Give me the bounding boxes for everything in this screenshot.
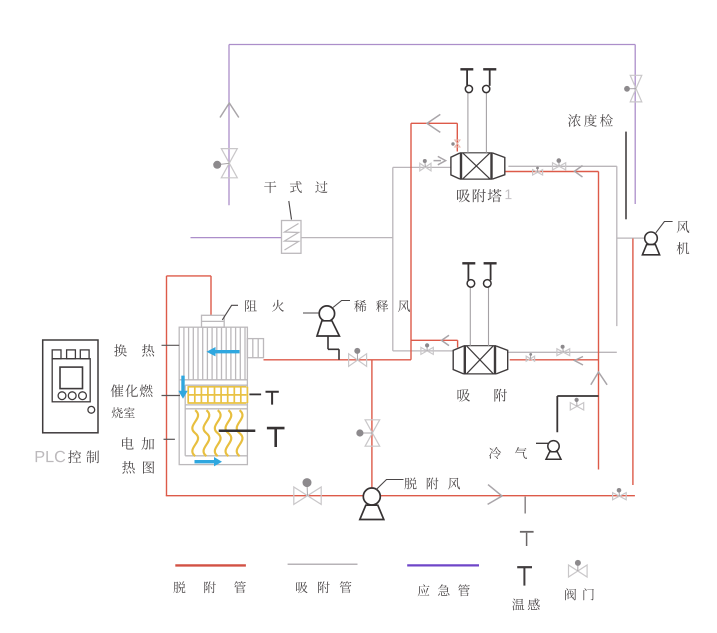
callout: dry filter (289, 201, 292, 220)
adsorption tower 2 X cross (466, 346, 493, 374)
arrow: up on red riser (591, 372, 607, 385)
heater coils (yellow waves) (192, 410, 242, 456)
legend: desorption pipe sample (175, 564, 246, 566)
temperature sensor T1b (483, 69, 497, 92)
sensor drops tower1 (468, 93, 487, 153)
adsorption tower 2 left cap (453, 346, 463, 374)
valve V12 emergency left (213, 149, 237, 178)
temperature sensor T2b (484, 263, 497, 287)
wire: tower2 outlet (508, 351, 617, 353)
valve V14 legend (569, 560, 588, 577)
wire: concentration detector line (625, 132, 627, 220)
valve V13 emergency right (624, 75, 642, 102)
wire: fan branch (617, 237, 645, 239)
fan: main fan (642, 232, 659, 255)
text: famen (565, 588, 594, 600)
text: xifuguan (296, 581, 351, 593)
arrow: left on tower2 feed (442, 335, 450, 345)
catalyst chamber borders (185, 385, 247, 405)
valve V5 tower2 red outlet (526, 353, 534, 361)
valve V3 tower1 red outlet (533, 167, 543, 175)
unit outlet protrusion (247, 339, 263, 358)
flame arrester chimney (202, 315, 225, 327)
text: retu (122, 461, 154, 474)
text: tuofufeng (405, 478, 461, 490)
legend: temperature sensor lower (517, 567, 532, 585)
wire: tower1 inlet (393, 166, 451, 168)
arrow: left on tower1 red outlet (575, 166, 583, 178)
tick: heat exchanger label (162, 344, 180, 346)
text: ganshiguo (264, 181, 327, 193)
valve V6 tower2 gray outlet (557, 345, 570, 356)
wire: tower1 red outlet (505, 171, 599, 173)
thermocouple upper probe (249, 393, 261, 395)
text: tuofuguan (174, 581, 246, 593)
catalytic unit shell (179, 327, 247, 464)
wire: tower1 top feed (411, 123, 457, 151)
catalyst grid (yellow) (188, 387, 248, 403)
valve V7 dilution duct (349, 348, 367, 367)
sensor drops tower2 (470, 288, 488, 346)
fan: dilution blower (317, 306, 339, 336)
valve V15 tower1 top feed (451, 140, 460, 147)
temperature sensor T2a (462, 263, 475, 287)
text: num1 (506, 190, 512, 200)
callout: flame arrester (222, 305, 238, 320)
text: huanre (114, 344, 154, 357)
wire: intake manifold vertical (392, 167, 394, 351)
text: xifuta (457, 189, 502, 202)
arrow: right at tower1 inlet (434, 156, 446, 164)
legend: emergency pipe sample (407, 564, 479, 566)
wire: desorption hot duct horizontal (264, 359, 412, 361)
text: cuihuaran (111, 384, 153, 397)
arrow: right on bottom pipe (488, 485, 502, 505)
wire: emergency pipe top horizontal (229, 44, 635, 46)
valve V1 tower1 inlet (420, 159, 431, 171)
text: yingjiguan (418, 584, 470, 596)
arrow: left on tower1 top feed (427, 114, 440, 132)
temperature sensor T1a (460, 69, 473, 92)
wire: desorption top elbow (167, 276, 212, 315)
wire: dilution blower zigzag (328, 336, 339, 360)
adsorption tower 1 body (460, 153, 493, 179)
thermocouple lower probe (219, 430, 256, 433)
text: xishifeng (354, 300, 410, 312)
tick: heater label (164, 438, 175, 440)
wire: filter outlet to manifold (301, 237, 393, 239)
PLC cabinet body (43, 340, 98, 433)
text: wengan (512, 599, 540, 611)
arrow: blue right at heater outlet (195, 457, 223, 466)
wire: tower feed vertical (410, 123, 412, 359)
adsorption tower 2 body (464, 346, 497, 374)
text: zuhuo (245, 300, 284, 312)
valve V2 tower1 gray outlet (553, 158, 566, 170)
adsorption tower 2 right cap (496, 346, 508, 374)
wire: cold air elbow (557, 396, 598, 432)
wire: desorption bottom horizontal (166, 495, 635, 497)
adsorption tower 1 X cross (463, 153, 491, 179)
adsorption tower 1 left cap (451, 153, 460, 179)
wire: tower1 outlet to fan (508, 165, 616, 167)
wire: probe stem (524, 497, 526, 514)
fan: cold air blower (546, 441, 561, 460)
arrow: blue down at catalyst inlet (178, 376, 187, 399)
legend: temperature sensor upper (520, 532, 534, 546)
text: plc (36, 451, 66, 463)
unit label ticks (162, 345, 181, 439)
wire: red riser mid (598, 172, 600, 470)
arrow: blue left in heat exchanger (207, 347, 240, 356)
tick: catalyst label (162, 395, 181, 397)
text: kongzhi (68, 450, 99, 463)
wire: desorption left vertical (166, 276, 168, 496)
valve V4 tower2 inlet (421, 343, 433, 354)
wire: emergency pipe right vertical (634, 45, 636, 205)
legend: adsorption pipe sample (288, 563, 358, 565)
wire: red drop from fan line (632, 239, 634, 486)
wire: tower2 inlet (393, 350, 453, 352)
wire: tower2 red outlet (510, 359, 599, 361)
arrow: up on emergency pipe (220, 103, 239, 118)
text: nongdujian (568, 114, 613, 127)
wire: emergency pipe left vertical (228, 45, 230, 206)
text: feng (677, 221, 690, 233)
wire: tower2 feed elbow (411, 340, 458, 347)
valve V9 bottom right (613, 488, 627, 500)
fan: desorption fan (360, 488, 384, 520)
adsorption tower 1 right cap (493, 153, 505, 179)
valve V11 desorption drop (356, 420, 379, 446)
wire: emergency pipe to filter (191, 237, 282, 239)
text: shaoshi (112, 407, 135, 418)
heat exchanger stripes (184, 327, 245, 380)
text: ji (677, 242, 690, 254)
text: lengqi (489, 447, 527, 459)
arrow: left on tower2 red outlet (575, 357, 584, 366)
heater chamber borders (185, 405, 247, 456)
wire: fan riser vertical (616, 166, 618, 326)
valve V10 cold air (570, 398, 583, 410)
text: xifu2 (458, 389, 508, 402)
blue flow arrows (178, 347, 239, 466)
wire: desorption fan drop (371, 360, 373, 488)
text: dianjia (122, 437, 154, 450)
valve V8 bottom left (294, 478, 321, 504)
